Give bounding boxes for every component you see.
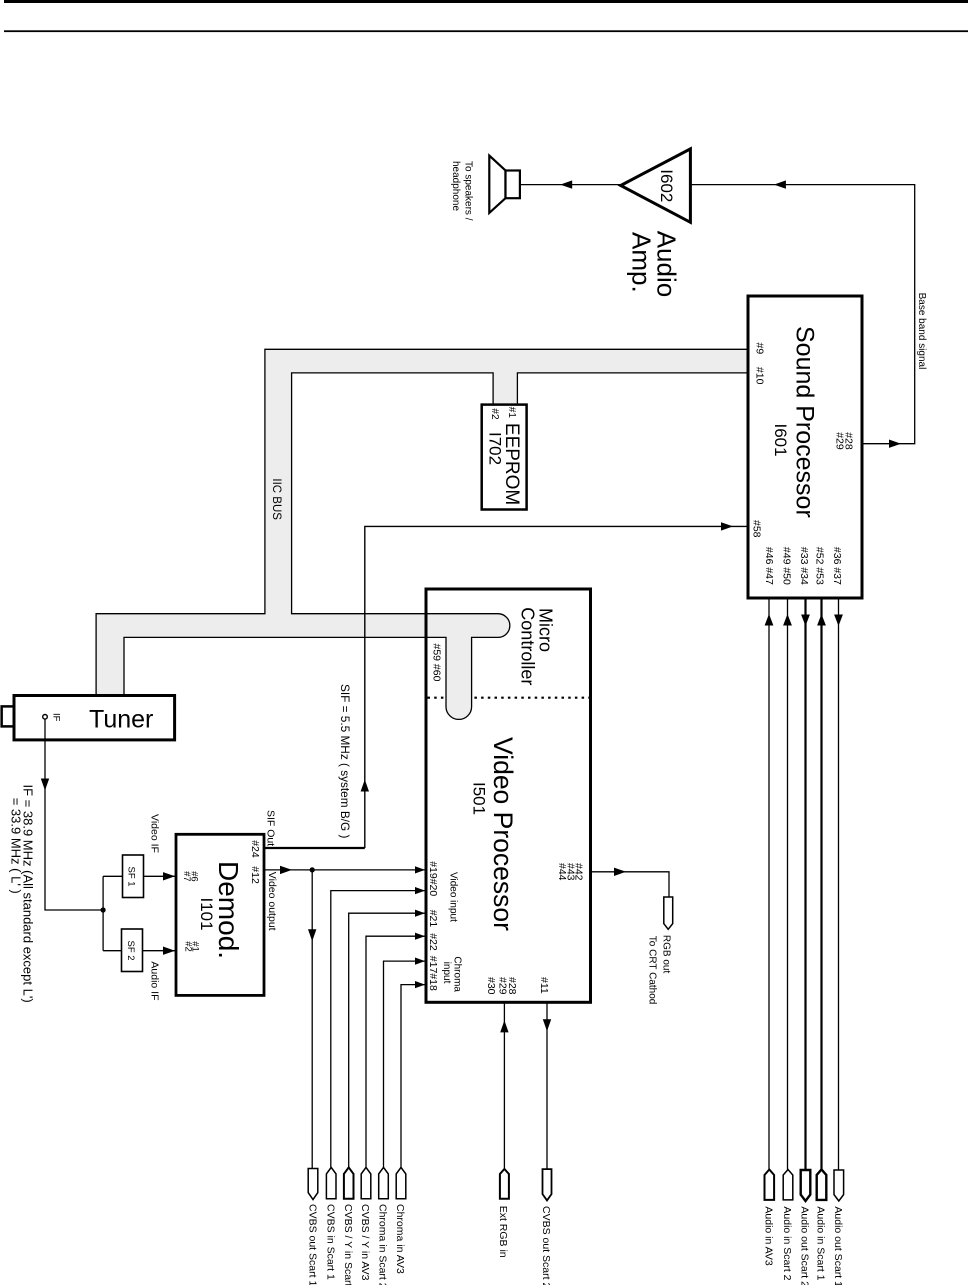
svg-text:Audio in AV3: Audio in AV3 bbox=[763, 1206, 775, 1266]
svg-text:I702: I702 bbox=[486, 432, 505, 465]
svg-text:Audio in Scart 2: Audio in Scart 2 bbox=[781, 1206, 793, 1280]
svg-text:#30: #30 bbox=[485, 977, 497, 995]
svg-text:Chroma in AV3: Chroma in AV3 bbox=[394, 1204, 406, 1274]
svg-text:SF 2: SF 2 bbox=[125, 941, 136, 961]
svg-text:SIF Out: SIF Out bbox=[265, 810, 277, 846]
svg-text:#7: #7 bbox=[181, 871, 192, 882]
svg-text:Sound Processor: Sound Processor bbox=[791, 326, 819, 518]
svg-text:CVBS out Scart 1: CVBS out Scart 1 bbox=[306, 1204, 318, 1285]
svg-text:#29: #29 bbox=[834, 432, 846, 450]
svg-text:Audio out Scart 1: Audio out Scart 1 bbox=[832, 1206, 844, 1285]
svg-text:#21: #21 bbox=[427, 910, 439, 928]
svg-text:Demod.: Demod. bbox=[213, 861, 244, 959]
svg-text:#29: #29 bbox=[497, 977, 509, 995]
svg-text:#49 #50: #49 #50 bbox=[781, 547, 793, 585]
svg-text:Controller: Controller bbox=[518, 607, 538, 685]
svg-text:#2: #2 bbox=[489, 408, 500, 420]
svg-text:Audio in Scart 1: Audio in Scart 1 bbox=[815, 1206, 827, 1280]
svg-text:#46 #47: #46 #47 bbox=[763, 547, 775, 585]
svg-text:Audio IF: Audio IF bbox=[149, 961, 161, 1000]
svg-text:#33 #34: #33 #34 bbox=[798, 547, 810, 585]
svg-text:Video input: Video input bbox=[448, 872, 459, 922]
svg-text:I601: I601 bbox=[771, 424, 790, 457]
svg-text:CVBS in Scart 1: CVBS in Scart 1 bbox=[324, 1204, 336, 1280]
svg-text:Chroma: Chroma bbox=[452, 956, 463, 992]
svg-text:Video Processor: Video Processor bbox=[488, 737, 518, 931]
svg-text:#11: #11 bbox=[538, 977, 550, 994]
svg-text:Amp.: Amp. bbox=[627, 232, 657, 293]
svg-text:RGB out: RGB out bbox=[661, 935, 672, 974]
svg-text:#59 #60: #59 #60 bbox=[431, 644, 443, 682]
svg-text:#22: #22 bbox=[427, 933, 439, 951]
svg-text:CVBS / Y in Scart 2: CVBS / Y in Scart 2 bbox=[342, 1204, 354, 1285]
svg-text:#44: #44 bbox=[556, 863, 568, 881]
svg-text:#36 #37: #36 #37 bbox=[831, 547, 843, 585]
svg-text:Video IF: Video IF bbox=[149, 814, 161, 853]
svg-text:input: input bbox=[441, 962, 452, 984]
svg-text:#19#20: #19#20 bbox=[427, 861, 439, 896]
svg-text:Chroma in Scart 2: Chroma in Scart 2 bbox=[377, 1204, 389, 1285]
svg-text:#1: #1 bbox=[506, 407, 517, 419]
svg-text:#52 #53: #52 #53 bbox=[814, 547, 826, 585]
svg-text:Micro: Micro bbox=[536, 608, 556, 652]
svg-text:IIC BUS: IIC BUS bbox=[270, 478, 282, 520]
svg-text:I101: I101 bbox=[197, 898, 216, 931]
svg-text:= 33.9 MHz ( L' ): = 33.9 MHz ( L' ) bbox=[9, 798, 24, 894]
svg-text:CVBS out Scart 2: CVBS out Scart 2 bbox=[540, 1206, 552, 1285]
svg-text:#12: #12 bbox=[249, 866, 261, 884]
svg-text:SIF = 5.5 MHz ( system B/G ): SIF = 5.5 MHz ( system B/G ) bbox=[338, 684, 352, 838]
svg-text:#9: #9 bbox=[754, 343, 766, 355]
svg-text:headphone: headphone bbox=[450, 161, 461, 211]
svg-text:I602: I602 bbox=[657, 169, 676, 202]
svg-text:Audio out Scart 2: Audio out Scart 2 bbox=[799, 1206, 811, 1285]
svg-text:Base band signal: Base band signal bbox=[916, 293, 927, 370]
svg-text:Video output: Video output bbox=[266, 872, 278, 931]
svg-text:#17#18: #17#18 bbox=[427, 956, 439, 991]
svg-text:IF: IF bbox=[51, 713, 62, 722]
svg-text:CVBS / Y in AV3: CVBS / Y in AV3 bbox=[359, 1204, 371, 1281]
svg-text:Ext RGB in: Ext RGB in bbox=[497, 1206, 509, 1258]
svg-text:SF 1: SF 1 bbox=[126, 867, 137, 887]
svg-text:#2: #2 bbox=[182, 941, 193, 952]
svg-text:I501: I501 bbox=[470, 782, 489, 815]
svg-text:Tuner: Tuner bbox=[89, 706, 153, 734]
svg-text:#24: #24 bbox=[249, 840, 261, 858]
svg-text:#10: #10 bbox=[754, 367, 766, 385]
svg-text:To speakers /: To speakers / bbox=[463, 161, 474, 221]
svg-text:To CRT Cathod: To CRT Cathod bbox=[647, 936, 658, 1005]
svg-text:#58: #58 bbox=[751, 520, 763, 538]
